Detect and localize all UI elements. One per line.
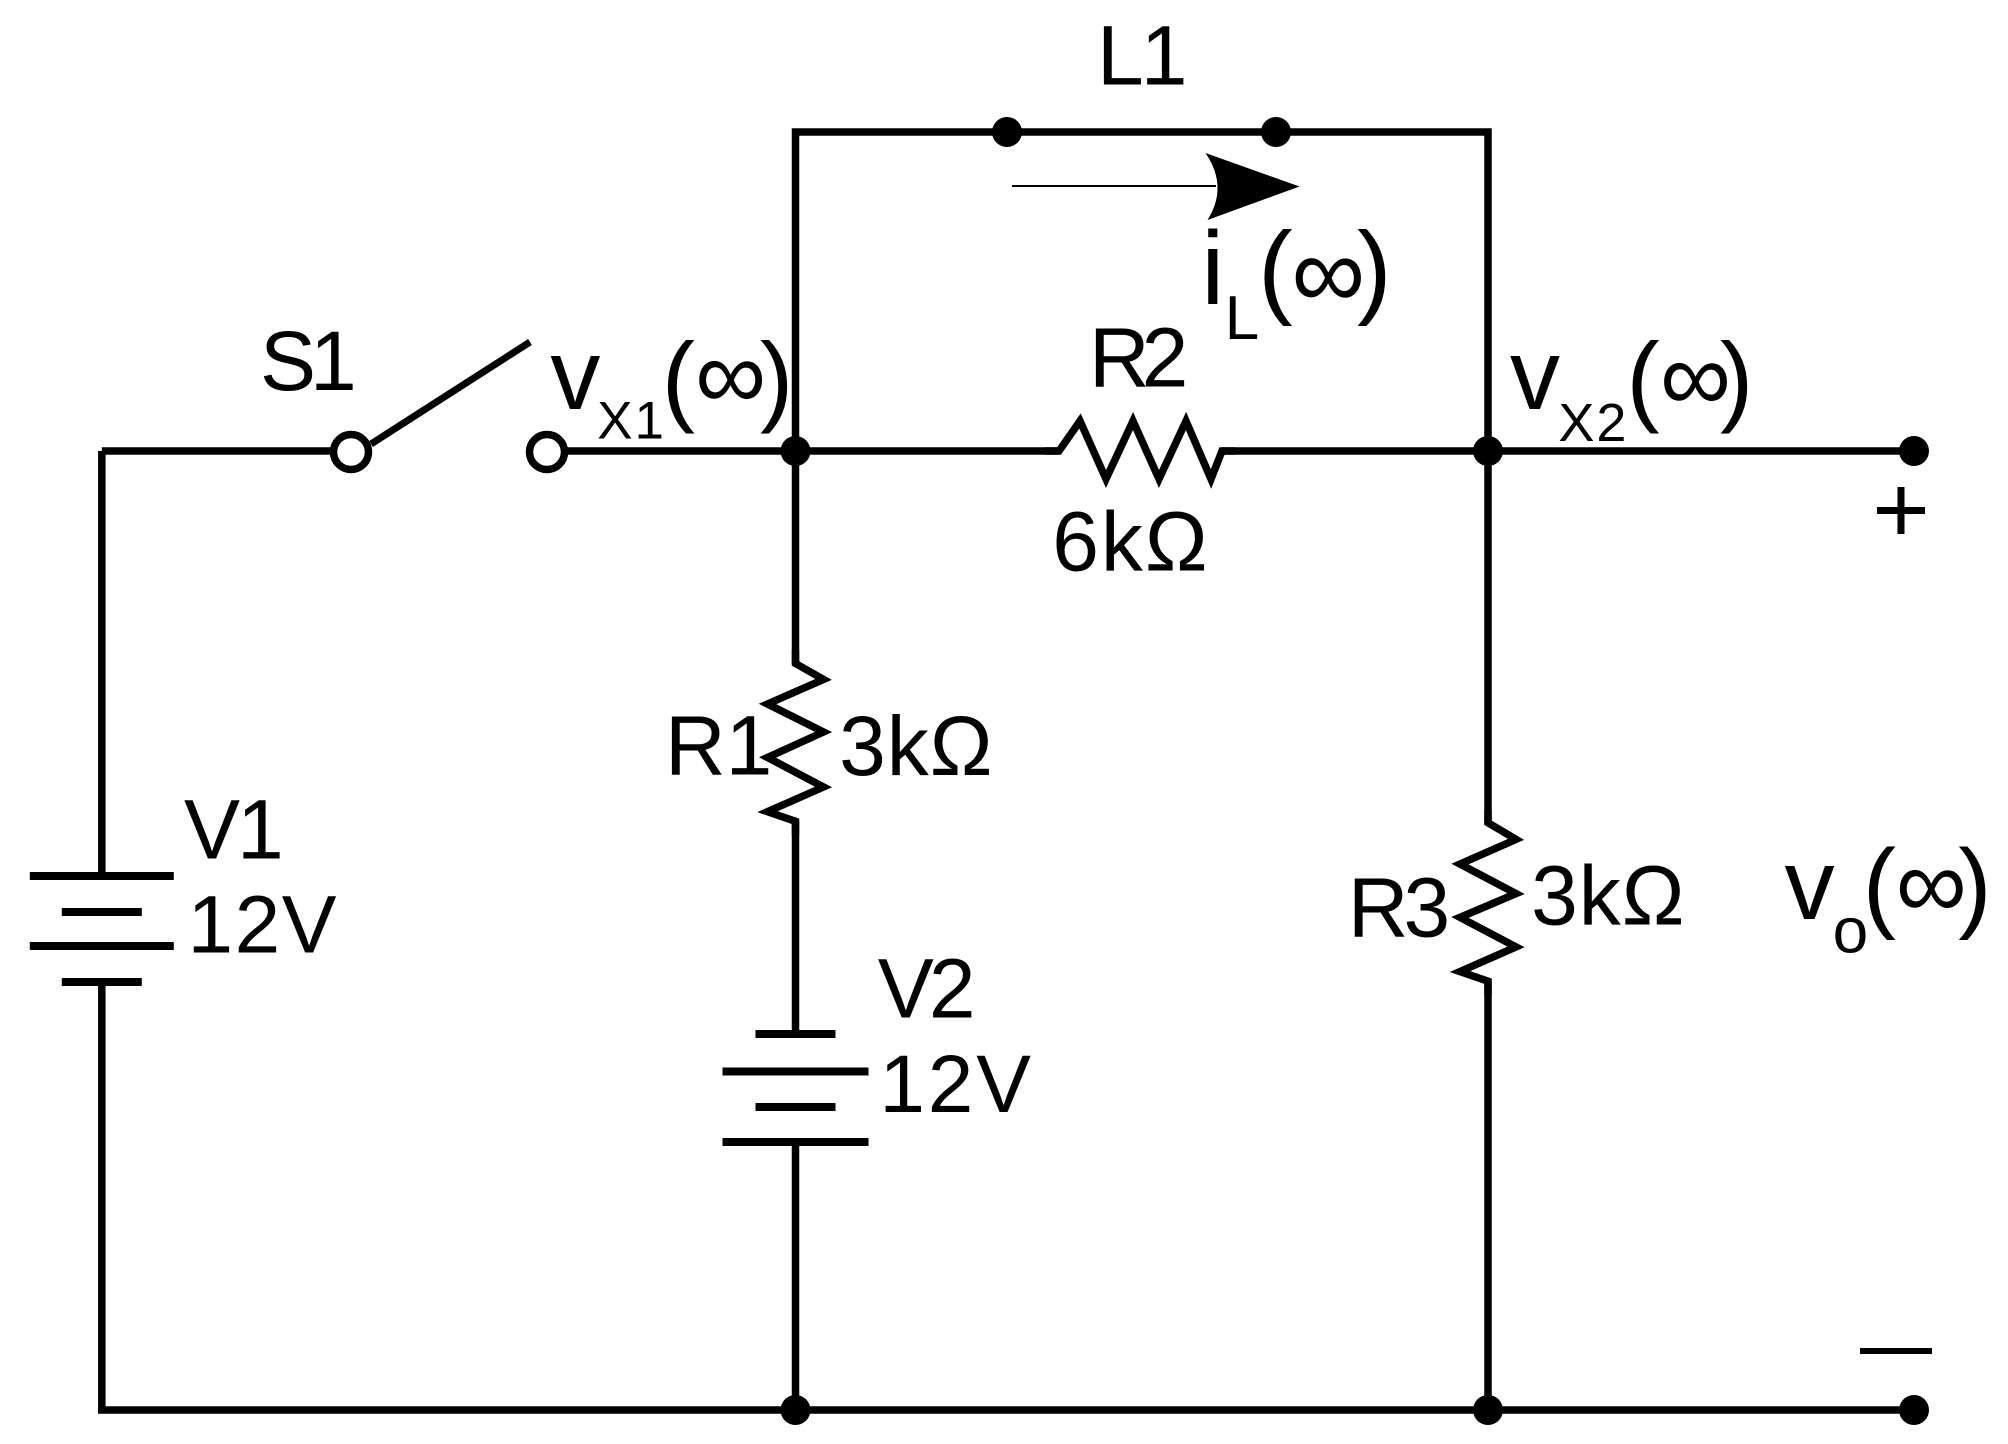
wire: resistor R3 down to bottom rail [1484, 981, 1492, 1410]
svg-text:12V: 12V [188, 880, 338, 971]
label R2 [1089, 311, 1185, 405]
wire: left branch down from main wire to battery V1 [98, 451, 106, 876]
label 6kOhm [1052, 495, 1210, 589]
wire: resistor R1 down to battery V2 [792, 821, 800, 1034]
label iL(inf) [1201, 211, 1391, 353]
wire: from switch to resistor R2 [565, 447, 1060, 455]
switch S1 pole circle [334, 435, 369, 470]
current arrow iL shaft [1012, 185, 1216, 187]
label R1 3kOhm [839, 699, 994, 793]
resistor R1 zigzag [768, 650, 824, 835]
wire: battery V2 down to bottom rail [792, 1142, 800, 1410]
svg-text:3kΩ: 3kΩ [1531, 848, 1686, 942]
battery V1 plate 2 short [62, 908, 142, 916]
terminal dot bottom right [1899, 1395, 1929, 1425]
resistor R3 zigzag [1460, 810, 1516, 995]
svg-text:vX1(∞): vX1(∞) [550, 319, 793, 451]
label V1 12V [188, 880, 338, 971]
label R3 [1348, 861, 1448, 955]
svg-text:3kΩ: 3kΩ [839, 699, 994, 793]
bottom junction dot under R1 branch [781, 1395, 811, 1425]
inductor L1 terminal dot right [1261, 117, 1291, 147]
plus sign output [1877, 487, 1925, 534]
minus sign output [1860, 1348, 1932, 1354]
svg-text:R2: R2 [1089, 311, 1185, 405]
node vX2 junction dot [1473, 436, 1503, 466]
current arrow iL head [1206, 153, 1300, 220]
inductor L1 terminal dot left [992, 117, 1022, 147]
label V2 [878, 942, 972, 1036]
wire: from resistor R2 to right edge [1222, 447, 1914, 455]
wire: node vX2 down to resistor R3 [1484, 451, 1492, 823]
label V2 12V [879, 1039, 1033, 1130]
svg-text:12V: 12V [879, 1039, 1033, 1130]
battery V2 plate 4 long [723, 1138, 869, 1146]
svg-text:R1: R1 [665, 699, 772, 793]
svg-text:6kΩ: 6kΩ [1052, 495, 1210, 589]
wire: top loop from node vX1 up and across (L1 branch) down to node vX2 [796, 132, 1489, 451]
terminal dot top right [1899, 436, 1929, 466]
label S1 [260, 314, 353, 408]
battery V2 plate 2 long [723, 1068, 869, 1076]
wire: battery V1 down to bottom left corner and bottom rail [102, 982, 1914, 1410]
label L1 [1097, 9, 1184, 103]
svg-text:S1: S1 [260, 314, 353, 408]
svg-text:R3: R3 [1348, 861, 1448, 955]
label R1 [665, 699, 772, 793]
label vX1(inf) [550, 319, 793, 451]
battery V2 plate 1 short [756, 1030, 836, 1038]
battery V2 plate 3 short [756, 1103, 836, 1111]
label R3 3kOhm [1531, 848, 1686, 942]
switch S1 throw circle [530, 435, 565, 470]
label vX2(inf) [1510, 319, 1753, 453]
node vX1 junction dot [781, 436, 811, 466]
svg-text:V2: V2 [878, 942, 972, 1036]
switch S1 blade [371, 342, 530, 444]
wire: node vX1 down to resistor R1 [792, 451, 800, 664]
bottom junction dot under R3 branch [1473, 1395, 1503, 1425]
battery V1 plate 1 long [30, 872, 174, 880]
label V1 [184, 783, 281, 877]
resistor R2 zigzag [1045, 421, 1235, 479]
wire: main horizontal from left edge to switch [102, 447, 333, 455]
battery V1 plate 3 long [30, 942, 174, 950]
svg-text:V1: V1 [184, 783, 281, 877]
svg-text:L1: L1 [1097, 9, 1184, 103]
label vo(inf) [1785, 828, 1992, 967]
battery V1 plate 4 short [62, 978, 142, 986]
